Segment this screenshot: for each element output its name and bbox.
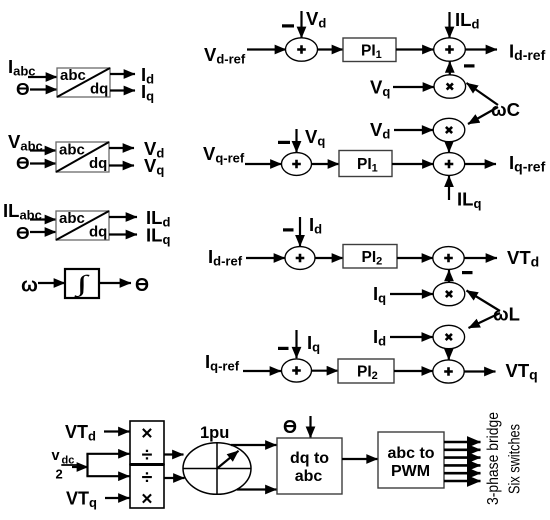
minus sign below sum6 (462, 271, 473, 274)
minus sign row4 sum (278, 347, 289, 350)
wire PI1b to sum4 (392, 163, 434, 165)
summer S3 (282, 153, 312, 176)
svg-text:dq to: dq to (290, 450, 329, 467)
wire Vd out (109, 147, 134, 149)
multiplier M1 (434, 75, 466, 98)
pwm gate wire 4 (444, 464, 481, 467)
pwm gate wire 3 (444, 456, 481, 459)
wire Id-ref to sum (246, 257, 285, 259)
wire PI1 to sum2 (396, 48, 434, 50)
wire bottom box to limiter (164, 477, 185, 479)
svg-text:Ɵ: Ɵ (16, 153, 30, 173)
integrator block (65, 269, 99, 298)
wire theta into block2 (30, 162, 56, 164)
summer S7 (282, 359, 312, 382)
wire ILq out (109, 233, 137, 235)
svg-text:abc: abc (295, 468, 323, 485)
wire sum1 to PI1 (318, 48, 344, 50)
wire VTd into mult-div box (104, 430, 130, 432)
wire Id-ref out (465, 48, 497, 50)
svg-text:÷: ÷ (142, 467, 153, 489)
wire Iq out (110, 89, 135, 91)
svg-text:v: v (52, 448, 60, 464)
pwm gate wire 5 (444, 472, 481, 475)
wire sum7 to PI2b (312, 370, 339, 372)
abc-to-dq block 3 (56, 210, 109, 241)
summer S8 (433, 360, 464, 383)
svg-text:dq: dq (89, 155, 107, 172)
wire vdc into branch (72, 466, 88, 468)
wire Iq-ref out (465, 163, 496, 165)
branch vertical (86, 454, 88, 476)
wire PI2b to sum8 (394, 370, 433, 372)
wire top box to limiter (164, 453, 184, 455)
pwm gate wire 6 (444, 480, 481, 483)
svg-text:dq: dq (89, 224, 107, 241)
summer S6 (433, 247, 464, 270)
wire Vd down into sum (300, 11, 302, 38)
svg-text:abc: abc (59, 210, 85, 227)
svg-text:1pu: 1pu (200, 424, 229, 442)
wire ILabc into block3 (30, 218, 56, 220)
minus sign row2 sum (278, 141, 290, 144)
summer S1 (286, 38, 318, 61)
wire theta down into dq-abc (309, 416, 311, 438)
wire limiter bottom out to dq-abc (237, 488, 277, 490)
wire sum5 to PI2 (315, 257, 343, 259)
svg-text:abc to: abc to (387, 445, 434, 462)
svg-text:×: × (141, 488, 152, 510)
wire branch top into box (86, 453, 129, 455)
wire Vq out (109, 164, 134, 166)
multiplier M4 (433, 325, 465, 348)
wire Vd to M2 (394, 129, 433, 131)
wire Vd-ref to sum (247, 48, 286, 50)
limiter circle 1pu (183, 443, 251, 495)
wire Id to M4 (390, 336, 433, 338)
summer S2 (434, 38, 466, 61)
PI2 block row4 (338, 359, 394, 383)
svg-text:Ɵ: Ɵ (283, 417, 297, 437)
wire VTd out (464, 257, 497, 259)
svg-text:÷: ÷ (142, 444, 153, 466)
wire Vq to M1 (393, 86, 434, 88)
wire Id down into sum (299, 217, 301, 246)
multiplier M3 (433, 282, 465, 305)
label vdc/2 (52, 448, 79, 482)
multiplier M2 (433, 118, 465, 141)
wire omega-L to M4 (469, 313, 501, 328)
wire Vq down into sum (295, 129, 297, 152)
wire M4 down into sum8 (448, 349, 450, 360)
minus sign below sum2 (464, 64, 475, 67)
svg-text:Ɵ: Ɵ (16, 223, 30, 243)
pwm gate wire 2 (444, 448, 481, 451)
wire Iq to M3 (390, 293, 433, 295)
svg-text:Six switches: Six switches (507, 424, 524, 494)
dq-to-abc block (277, 438, 342, 494)
wire multiplier M3 up to sum6 (448, 270, 450, 283)
svg-text:3-phase bridge: 3-phase bridge (485, 412, 502, 505)
mult-div box top (130, 421, 164, 466)
wire omega-L to M3 (467, 291, 501, 312)
wire ILd down into sum2 (448, 12, 450, 38)
wire ILd out (109, 216, 137, 218)
wire PI2 to sum6 (397, 257, 433, 259)
wire omega-C to M2 (468, 107, 498, 124)
svg-text:Ɵ: Ɵ (16, 79, 30, 99)
wire theta into block3 (30, 231, 56, 233)
wire limiter top out to dq-abc (231, 444, 277, 446)
wire theta into block1 (30, 88, 57, 90)
minus sign row1 sum (282, 24, 294, 27)
wire VTq out (464, 370, 495, 372)
wire Iq down into sum (295, 330, 297, 358)
PI2 block row3 (343, 245, 397, 269)
wire omega-C to M1 (467, 83, 499, 105)
wire Vabc into block2 (30, 149, 56, 151)
wire branch bottom into box (86, 475, 129, 477)
wire Iabc into block1 (28, 76, 57, 78)
wire multiplier M1 up to sum2 (449, 61, 451, 75)
wire sum3 to PI1b (312, 163, 340, 165)
abc-to-PWM block (378, 432, 444, 488)
svg-text:abc: abc (60, 67, 86, 84)
thick shared edge of boxes (130, 463, 164, 466)
svg-text:Ɵ: Ɵ (135, 275, 149, 295)
summer S4 (433, 153, 464, 176)
wire dq-abc to pwm (342, 458, 378, 460)
summer S5 (285, 247, 315, 270)
wire Vq-ref to sum (245, 163, 282, 165)
pwm gate wire 1 (444, 441, 481, 444)
svg-text:dq: dq (90, 81, 108, 98)
wire Iq-ref to sum (243, 370, 281, 372)
minus sign row3 sum (283, 228, 294, 231)
wire Id out (110, 73, 135, 75)
abc-to-dq block 1 (57, 67, 110, 98)
wire VTq into mult-div box (105, 497, 130, 499)
PI1 block row1 (343, 38, 396, 62)
svg-text:abc: abc (59, 142, 85, 159)
svg-text:ω: ω (21, 275, 38, 297)
wire theta out of integrator (99, 282, 131, 284)
wire M2 down into sum4 (448, 142, 450, 153)
svg-text:PWM: PWM (391, 463, 430, 480)
wire ILq up into sum4 (448, 176, 450, 200)
abc-to-dq block 2 (56, 142, 109, 173)
svg-text:×: × (141, 423, 152, 445)
mult-div box bottom (130, 465, 164, 511)
PI1 block row2 (339, 151, 392, 177)
svg-text:2: 2 (56, 467, 63, 482)
wire omega into integrator (38, 282, 65, 284)
